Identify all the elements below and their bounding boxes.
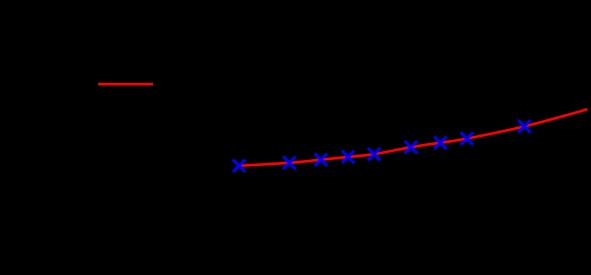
data markers (blue X crosses) <box>233 120 531 172</box>
marker 6 <box>405 141 417 153</box>
marker 5 <box>368 148 380 160</box>
marker 3 <box>315 154 327 166</box>
legend line sample (red) <box>98 83 153 86</box>
marker 4 <box>342 151 354 163</box>
marker 2 <box>283 157 295 169</box>
marker 7 <box>434 137 446 149</box>
marker 8 <box>461 132 473 144</box>
marker 1 <box>233 160 245 172</box>
curve (red fitted line) <box>239 109 587 166</box>
marker 9 <box>518 120 530 132</box>
